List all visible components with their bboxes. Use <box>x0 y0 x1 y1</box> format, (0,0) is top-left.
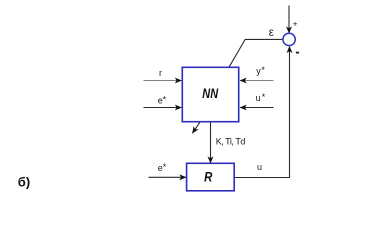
svg-text:*: * <box>261 65 265 75</box>
wire epsilon from summing circle to NN top (horizontal then diagonal) <box>229 39 283 66</box>
svg-text:K, Ti, Td: K, Ti, Td <box>216 137 246 147</box>
block NN (neural network) <box>182 67 238 121</box>
svg-text:R: R <box>204 169 212 184</box>
svg-text:+: + <box>293 19 298 29</box>
svg-text:r: r <box>159 68 162 78</box>
wire r input (grey horizontal line into NN left) <box>144 80 182 82</box>
svg-text:NN: NN <box>202 86 218 101</box>
svg-text:*: * <box>262 92 266 102</box>
tuning arrow at NN bottom-left (short diagonal) <box>192 122 199 133</box>
svg-text:б): б) <box>18 175 30 190</box>
wire u* input into NN right <box>240 107 273 109</box>
svg-text:u: u <box>257 162 262 172</box>
wire reference into summing circle from top <box>288 6 290 34</box>
wire u feedback: from R output right, up into summing circle bottom <box>234 46 289 177</box>
wire e* input into R left <box>149 176 186 178</box>
svg-text:u: u <box>256 93 261 103</box>
block R (regulator) <box>187 163 235 191</box>
svg-text:*: * <box>163 94 167 104</box>
svg-text:ε: ε <box>269 27 274 39</box>
wire e* input into NN left <box>144 107 182 109</box>
svg-text:*: * <box>163 162 167 172</box>
wire y* input into NN right <box>240 80 273 82</box>
summing junction circle <box>283 33 295 45</box>
label minus <box>296 52 299 54</box>
wire K,Ti,Td from NN bottom into R top <box>210 122 212 163</box>
